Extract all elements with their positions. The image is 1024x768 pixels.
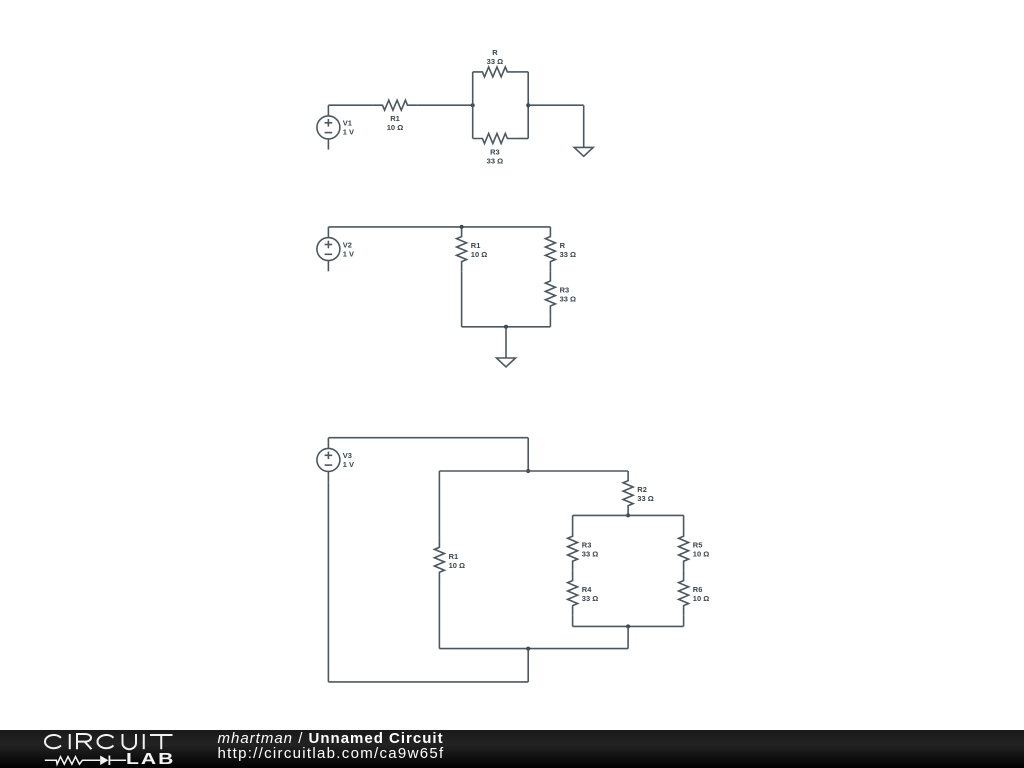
wire V1 to R1 bbox=[328, 104, 372, 106]
node C junction dot bbox=[460, 225, 464, 229]
svg-text:33 Ω: 33 Ω bbox=[582, 594, 598, 603]
wire parallel left branch bbox=[472, 72, 474, 139]
resistor R 33ohm vertical bbox=[545, 227, 576, 271]
svg-text:V3: V3 bbox=[343, 451, 352, 460]
node B junction dot bbox=[526, 103, 530, 107]
wire inner right top stub bbox=[683, 515, 685, 526]
ground symbol circuit 1 bbox=[574, 139, 593, 157]
wire inner right bottom stub bbox=[683, 615, 685, 626]
wire parallel right branch bbox=[527, 72, 529, 139]
wire V3 top rail bbox=[328, 437, 528, 439]
wire node H down bbox=[527, 649, 529, 682]
svg-text:10 Ω: 10 Ω bbox=[693, 550, 709, 559]
wire R1 to bottom rail bbox=[438, 582, 440, 649]
node A junction dot bbox=[471, 103, 475, 107]
resistor R 33ohm top branch bbox=[473, 48, 517, 77]
wire R3 to right branch bbox=[517, 138, 528, 140]
wire inner top rail bbox=[573, 514, 684, 516]
svg-text:R5: R5 bbox=[693, 541, 703, 550]
wire node G down bbox=[627, 626, 629, 648]
logo word LAB bbox=[126, 752, 163, 768]
node G junction dot bbox=[626, 624, 630, 628]
wire R1 down to bottom rail bbox=[461, 271, 463, 327]
footer bar bbox=[0, 730, 1024, 768]
wire R to right branch bbox=[517, 71, 528, 73]
svg-text:33 Ω: 33 Ω bbox=[582, 550, 598, 559]
node E junction dot bbox=[526, 469, 530, 473]
svg-text:10 Ω: 10 Ω bbox=[471, 250, 487, 259]
wire top feed down bbox=[527, 438, 529, 471]
resistor R6 10ohm vertical bbox=[679, 571, 710, 615]
resistor R3 33ohm vertical bbox=[545, 271, 576, 315]
wire bottom rail 2 bbox=[328, 681, 528, 683]
voltage source V3 1V bbox=[317, 438, 354, 482]
svg-text:10 Ω: 10 Ω bbox=[449, 561, 465, 570]
svg-text:R1: R1 bbox=[471, 241, 481, 250]
resistor R4 33ohm vertical bbox=[568, 571, 599, 615]
resistor R3 33ohm vertical bbox=[568, 527, 599, 571]
svg-text:33 Ω: 33 Ω bbox=[487, 157, 503, 166]
wire node B to corner bbox=[528, 104, 584, 106]
svg-text:R: R bbox=[560, 241, 566, 250]
wire inner left bottom stub bbox=[572, 615, 574, 626]
node H junction dot bbox=[526, 647, 530, 651]
voltage source V2 1V bbox=[317, 227, 354, 271]
wire inner bottom rail bbox=[573, 625, 684, 627]
node F junction dot bbox=[626, 513, 630, 517]
svg-text:R3: R3 bbox=[490, 148, 500, 157]
resistor R2 33ohm vertical bbox=[623, 471, 654, 515]
CircuitLab logo word CIRCUIT bbox=[40, 730, 180, 754]
wire left down to R1 bbox=[438, 471, 440, 538]
svg-text:33 Ω: 33 Ω bbox=[487, 57, 503, 66]
resistor R1 10ohm bbox=[373, 100, 417, 132]
svg-text:V2: V2 bbox=[343, 240, 352, 249]
resistor R1 10ohm vertical bbox=[457, 227, 488, 271]
wire middle rail bbox=[439, 470, 628, 472]
wire corner down to ground bbox=[583, 105, 585, 138]
ground symbol circuit 2 bbox=[497, 327, 516, 367]
svg-text:R: R bbox=[492, 48, 498, 57]
voltage source V1 1V bbox=[317, 105, 354, 149]
svg-text:R3: R3 bbox=[582, 541, 592, 550]
svg-text:R1: R1 bbox=[390, 114, 400, 123]
node D junction dot bbox=[504, 325, 508, 329]
resistor R5 10ohm vertical bbox=[679, 527, 710, 571]
svg-text:1 V: 1 V bbox=[343, 249, 354, 258]
svg-text:R1: R1 bbox=[449, 552, 459, 561]
svg-text:1 V: 1 V bbox=[343, 460, 354, 469]
svg-text:33 Ω: 33 Ω bbox=[560, 250, 576, 259]
wire R1 to node A bbox=[417, 104, 473, 106]
svg-text:33 Ω: 33 Ω bbox=[637, 494, 653, 503]
svg-text:10 Ω: 10 Ω bbox=[693, 594, 709, 603]
logo resistor-diode glyph bbox=[44, 753, 129, 767]
resistor R1 10ohm vertical bbox=[434, 538, 465, 582]
svg-text:33 Ω: 33 Ω bbox=[560, 295, 576, 304]
svg-text:R2: R2 bbox=[637, 485, 647, 494]
wire V3 bottom long bbox=[327, 482, 329, 682]
wire bottom rail circuit 2 bbox=[462, 326, 551, 328]
resistor R3 33ohm bottom branch bbox=[473, 134, 517, 166]
svg-text:V1: V1 bbox=[343, 119, 352, 128]
svg-text:R4: R4 bbox=[582, 585, 592, 594]
svg-text:R3: R3 bbox=[560, 286, 570, 295]
svg-text:1 V: 1 V bbox=[343, 128, 354, 137]
footer text: author / title and url bbox=[218, 731, 445, 762]
wire bottom rail 1 bbox=[439, 648, 628, 650]
svg-text:R6: R6 bbox=[693, 585, 703, 594]
wire V2 top rail bbox=[328, 226, 550, 228]
wire inner left top stub bbox=[572, 515, 574, 526]
svg-text:10 Ω: 10 Ω bbox=[387, 123, 403, 132]
wire R3 to bottom rail bbox=[549, 316, 551, 327]
